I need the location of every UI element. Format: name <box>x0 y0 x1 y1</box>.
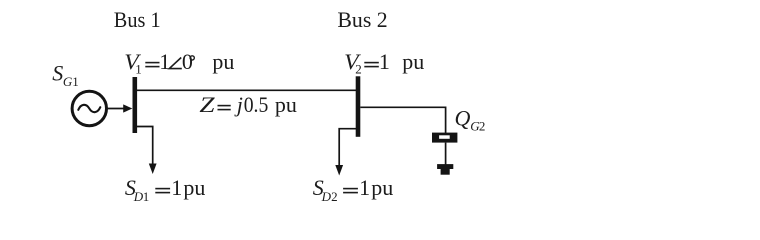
svg-text:1: 1 <box>379 49 390 74</box>
svg-text:1: 1 <box>171 175 182 200</box>
svg-text:Z: Z <box>199 92 215 117</box>
svg-text:D: D <box>321 189 332 204</box>
capacitor QG2 plates <box>432 133 457 143</box>
svg-text:1: 1 <box>359 175 370 200</box>
capacitor stem wire <box>445 143 447 165</box>
svg-text:0.5: 0.5 <box>244 92 269 117</box>
svg-text:1: 1 <box>135 62 142 77</box>
label V2 = 1 pu <box>344 49 424 76</box>
svg-text:2: 2 <box>331 189 338 204</box>
transmission line Bus1-Bus2 <box>137 89 356 91</box>
svg-text:S: S <box>52 60 63 85</box>
svg-text:1: 1 <box>143 189 150 204</box>
svg-text:0: 0 <box>182 49 193 74</box>
svg-text:1: 1 <box>159 49 170 74</box>
ground <box>437 164 453 175</box>
svg-text:j: j <box>234 92 243 117</box>
bus Bus 2 <box>356 76 361 137</box>
load arrow SD1 <box>135 127 157 175</box>
svg-text:pu: pu <box>212 49 234 74</box>
svg-text:Q: Q <box>455 105 471 130</box>
label QG2 <box>455 105 486 133</box>
svg-text:2: 2 <box>479 118 486 133</box>
bus Bus 1 <box>133 77 138 133</box>
generator SG1 <box>72 91 106 125</box>
label Z = j 0.5 pu <box>199 92 297 117</box>
svg-text:pu: pu <box>275 92 297 117</box>
svg-text:pu: pu <box>371 175 393 200</box>
svg-text:Bus 2: Bus 2 <box>337 7 387 32</box>
label V1 = 1 angle 0 deg pu <box>124 49 234 77</box>
wire generator to Bus 1 with arrowhead <box>107 104 132 112</box>
svg-text:2: 2 <box>355 61 362 76</box>
label SD2 = 1 pu <box>313 175 394 204</box>
label SG1 <box>52 60 78 89</box>
wire Bus 2 to capacitor <box>360 107 445 133</box>
svg-text:Bus 1: Bus 1 <box>114 7 161 32</box>
label SD1 = 1 pu <box>125 175 205 204</box>
svg-text:1: 1 <box>72 74 79 89</box>
svg-text:pu: pu <box>183 175 205 200</box>
svg-text:pu: pu <box>402 49 424 74</box>
load arrow SD2 <box>335 129 357 176</box>
